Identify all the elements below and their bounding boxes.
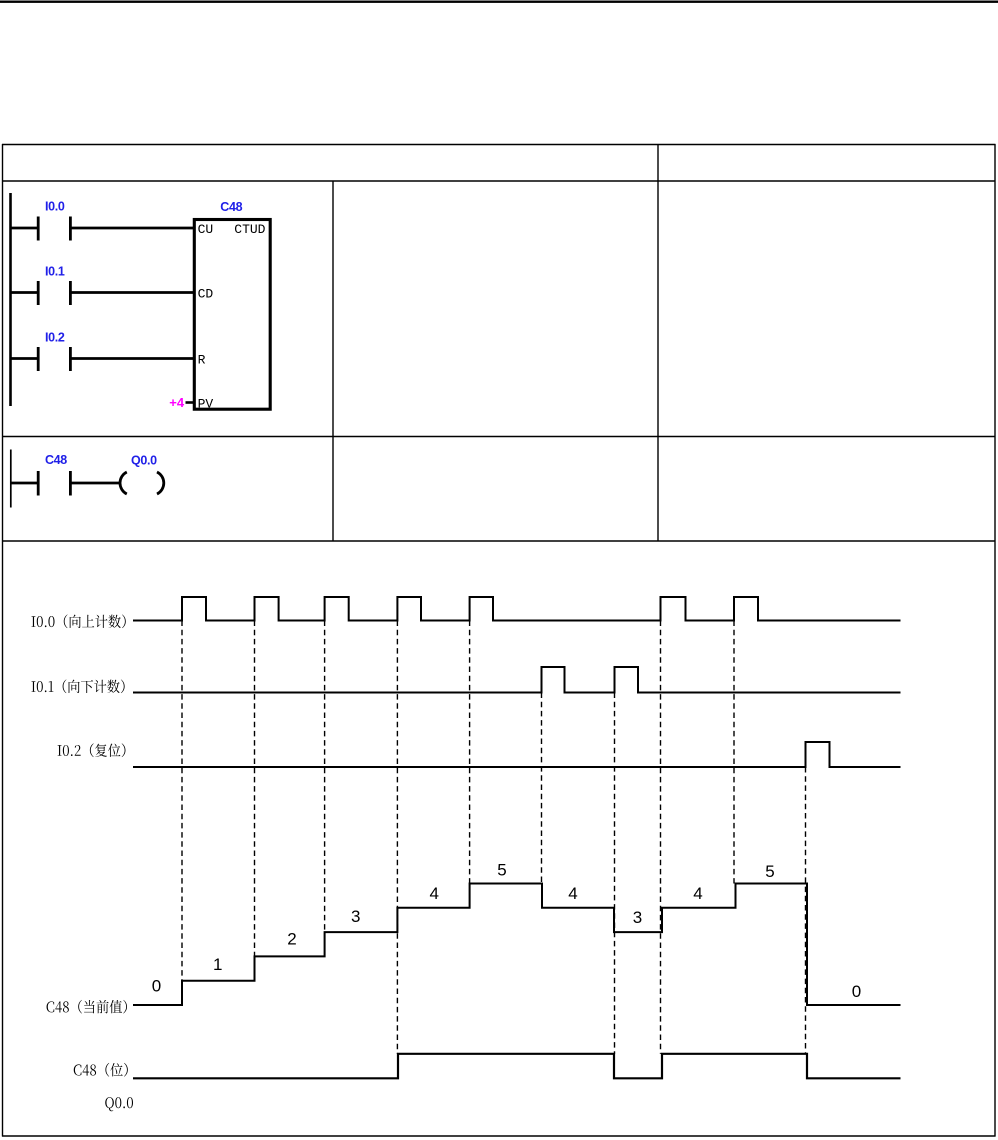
dashed guide line: CU edge 1 bbox=[181, 621, 183, 981]
table column divider x=658 bbox=[657, 145, 659, 542]
dashed guide line: CU edge 6 bbox=[660, 621, 662, 1054]
svg-text:4: 4 bbox=[693, 884, 702, 903]
I0.2 waveform trace bbox=[133, 742, 901, 767]
table top border bbox=[2, 144, 996, 146]
dashed guide line: CD edge 1 bbox=[541, 693, 543, 884]
contact C48 (network 2) bbox=[11, 471, 121, 496]
dashed guide line: CD edge 2 bbox=[614, 693, 616, 1054]
label C48 (wei) bbox=[74, 1063, 128, 1077]
ladder network 2: power rail bbox=[10, 450, 12, 508]
dashed guide line: CU edge 2 bbox=[254, 621, 256, 957]
dashed guide line: CU edge 5 bbox=[469, 621, 471, 884]
label I0.1 (xiang xia ji shu) bbox=[31, 680, 124, 694]
table column divider x=333 bbox=[332, 181, 334, 541]
C48 bit waveform trace bbox=[133, 1054, 901, 1079]
contact I0.2 (rung 3) bbox=[11, 347, 195, 371]
table header bottom rule bbox=[2, 180, 996, 182]
svg-text:CD: CD bbox=[198, 286, 214, 301]
svg-text:5: 5 bbox=[497, 861, 506, 880]
svg-text:4: 4 bbox=[429, 884, 438, 903]
dashed guide line: CU edge 4 bbox=[396, 621, 398, 1054]
table row2 bottom rule bbox=[2, 540, 996, 542]
svg-text:2: 2 bbox=[287, 930, 296, 949]
output coil Q0.0 bbox=[120, 472, 164, 494]
svg-text:R: R bbox=[198, 353, 206, 368]
label I0.0 (xiang shang ji shu) bbox=[31, 615, 125, 629]
table bottom border bbox=[2, 1135, 996, 1137]
svg-text:5: 5 bbox=[765, 862, 774, 881]
top horizontal rule bbox=[0, 1, 998, 3]
I0.0 waveform trace bbox=[133, 597, 901, 621]
svg-text:3: 3 bbox=[633, 908, 642, 927]
I0.1 waveform trace bbox=[133, 667, 901, 693]
svg-text:0: 0 bbox=[152, 977, 161, 996]
svg-text:4: 4 bbox=[568, 884, 577, 903]
contact I0.1 (rung 2) bbox=[11, 281, 195, 305]
dashed guide line: reset edge bbox=[805, 767, 807, 1054]
svg-text:I0.0: I0.0 bbox=[45, 200, 65, 214]
svg-text:I0.2: I0.2 bbox=[45, 331, 65, 345]
table row1 bottom rule bbox=[2, 436, 996, 438]
svg-text:PV: PV bbox=[198, 397, 214, 412]
table left border bbox=[2, 144, 4, 1137]
C48 current value staircase trace bbox=[133, 884, 901, 1006]
ladder network 1: power rail bbox=[9, 193, 12, 406]
svg-text:CTUD: CTUD bbox=[234, 222, 265, 237]
dashed guide line: CU edge 3 bbox=[324, 621, 326, 933]
contact I0.0 (rung 1) bbox=[11, 217, 195, 241]
label I0.2 (fu wei) bbox=[58, 743, 126, 757]
table right border bbox=[994, 144, 996, 1137]
svg-text:C48: C48 bbox=[45, 453, 67, 467]
label Q0.0 bbox=[105, 1097, 133, 1111]
svg-text:CU: CU bbox=[198, 222, 214, 237]
svg-text:I0.1: I0.1 bbox=[45, 265, 65, 279]
svg-text:C48: C48 bbox=[220, 200, 242, 214]
CTUD counter box C48 bbox=[194, 220, 270, 410]
dashed guide line: CU edge 7 bbox=[733, 621, 735, 884]
svg-text:3: 3 bbox=[351, 907, 360, 926]
svg-text:Q0.0: Q0.0 bbox=[131, 454, 157, 468]
svg-text:1: 1 bbox=[213, 955, 222, 974]
svg-text:+4: +4 bbox=[169, 395, 185, 410]
label C48 (dang qian zhi) bbox=[47, 1000, 127, 1014]
PV input tick wire bbox=[186, 401, 195, 404]
svg-text:0: 0 bbox=[852, 982, 861, 1001]
